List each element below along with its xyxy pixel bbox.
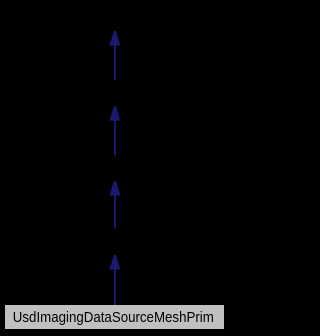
svg-text:UsdImagingDataSourceMeshPrim: UsdImagingDataSourceMeshPrim (13, 309, 214, 326)
